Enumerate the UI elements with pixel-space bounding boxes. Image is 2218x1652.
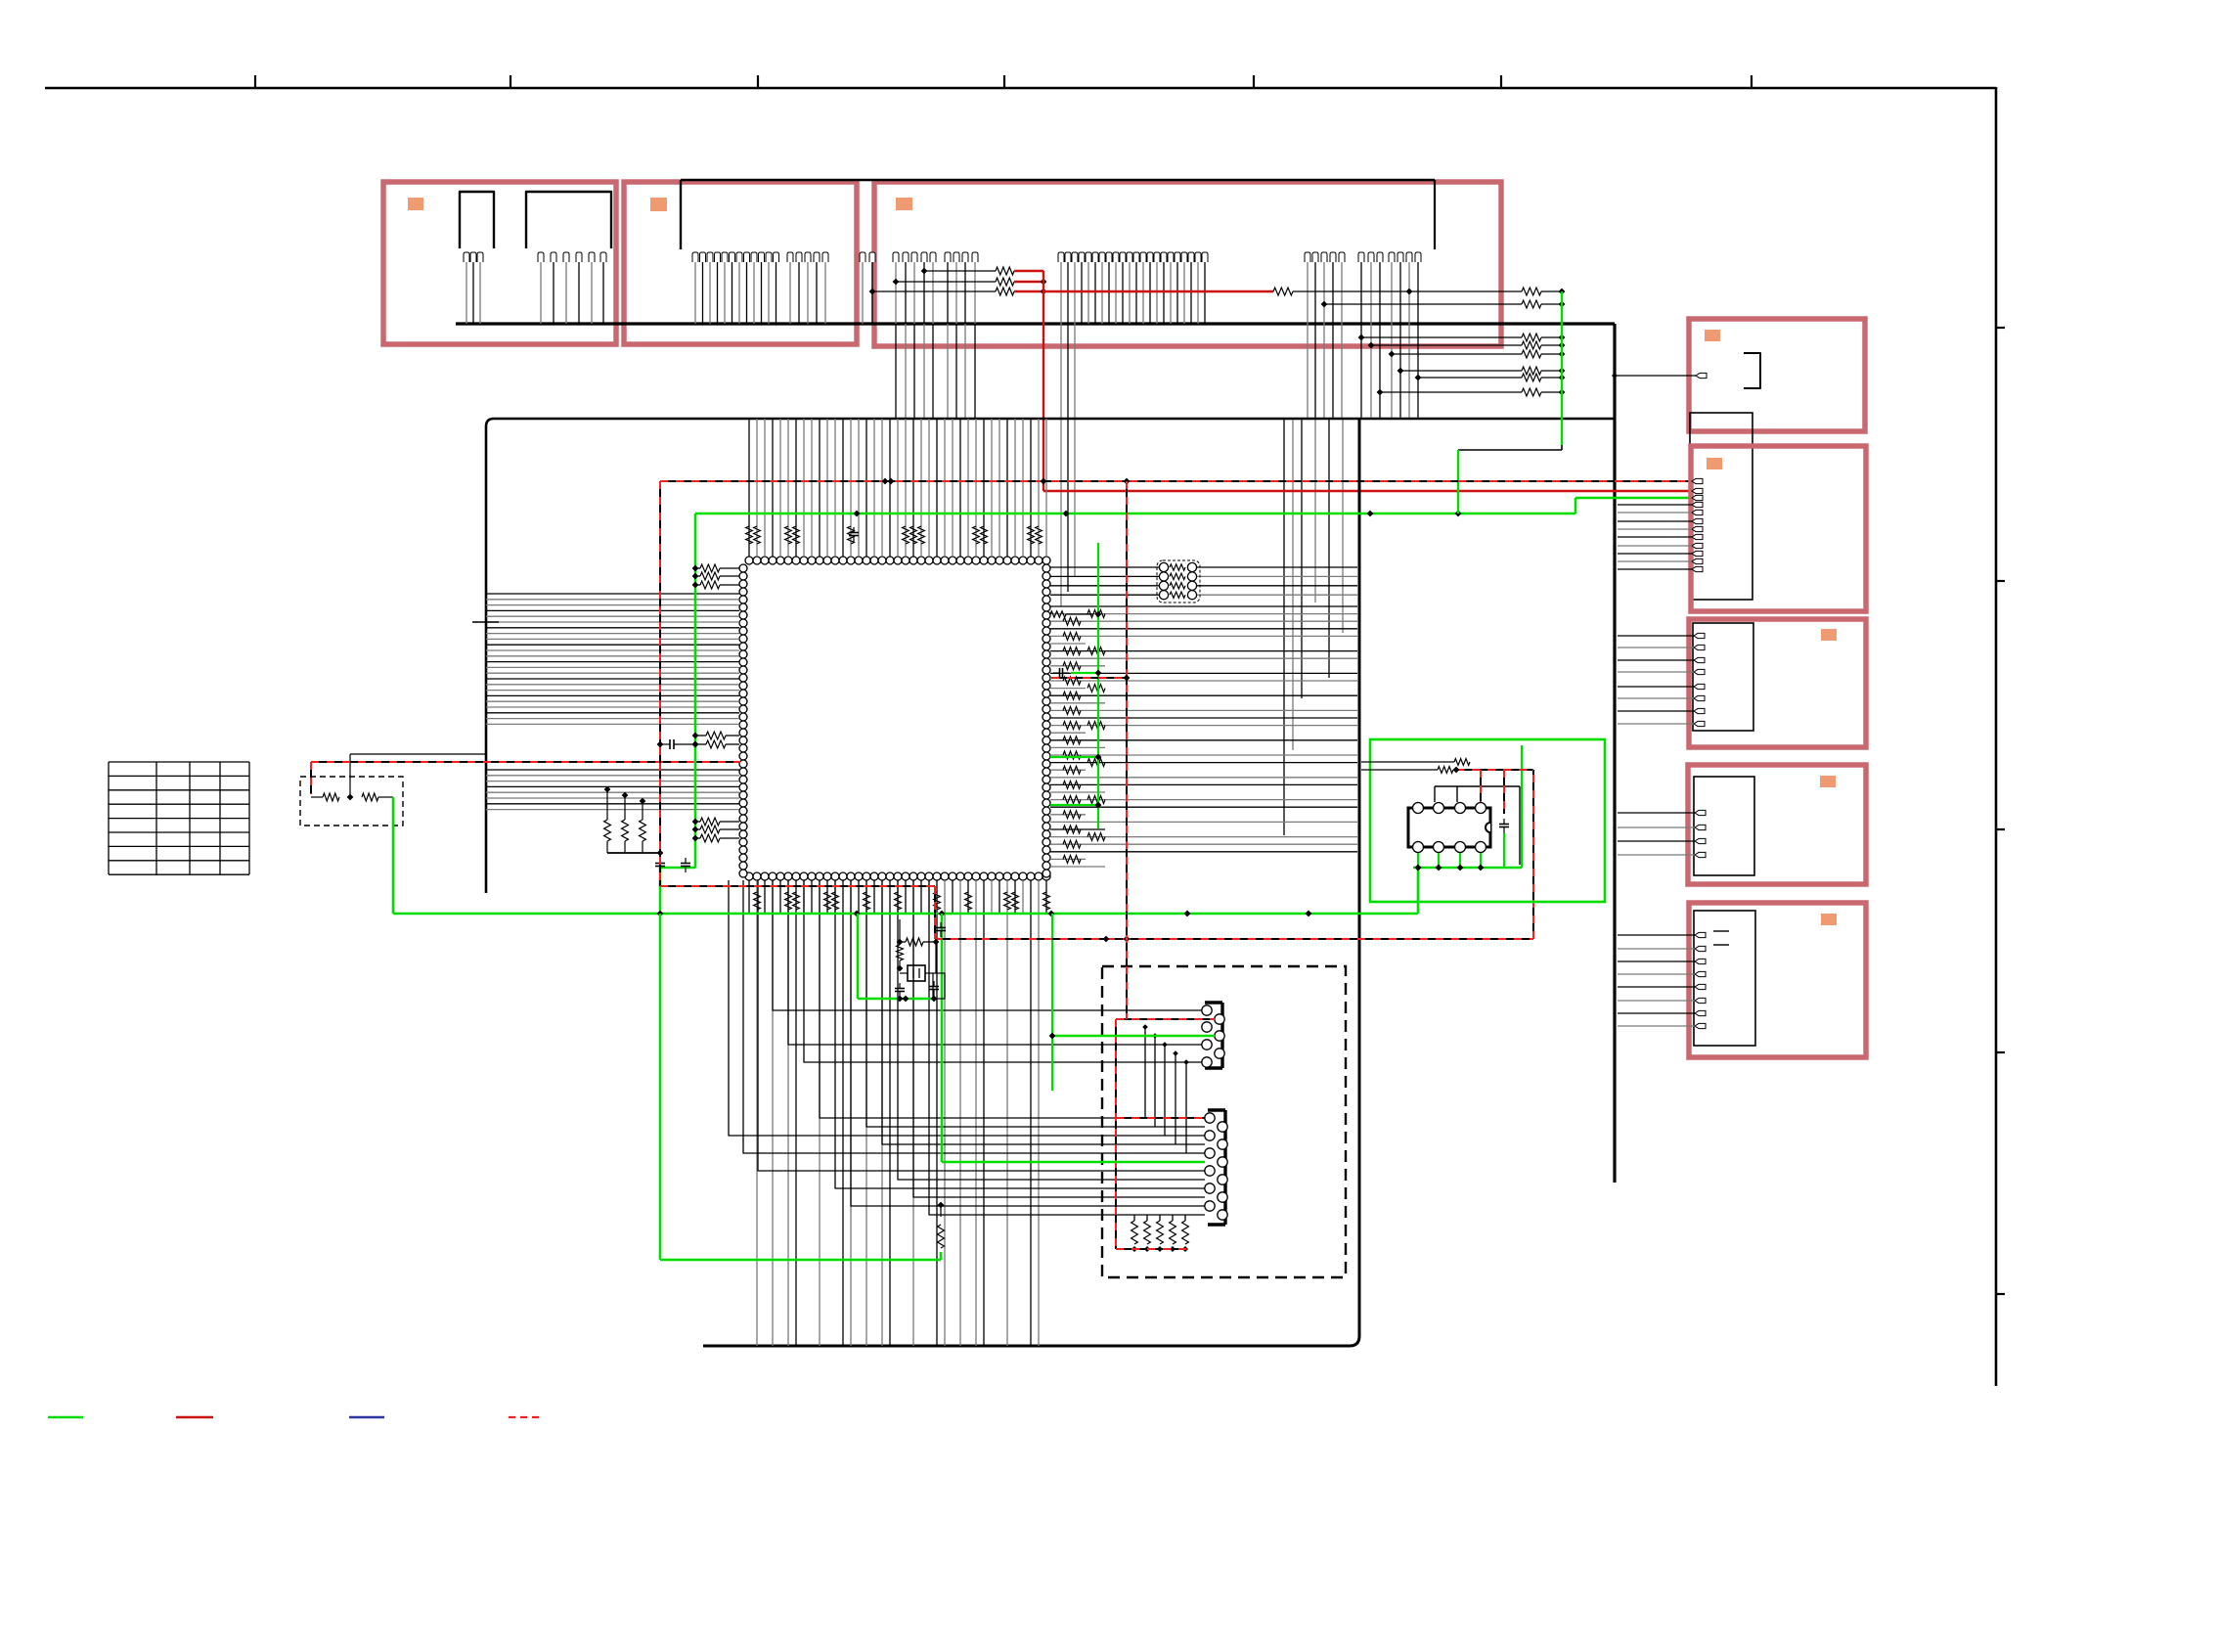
red wire VCC [1043, 271, 1692, 491]
block CN-E label [1821, 914, 1837, 925]
connector block CN1 label [408, 198, 423, 210]
block CN-D outline [1688, 765, 1866, 884]
ferrite bead array FB1 [1157, 560, 1200, 603]
wires CN10 internal [1142, 1024, 1189, 1153]
green wire over core [660, 498, 1694, 911]
connector J6 pins [1305, 252, 1421, 262]
connector CN11 body [1205, 1110, 1227, 1225]
green branch to CN11 [942, 914, 1205, 1162]
block CN-A outline [1689, 319, 1865, 431]
wire to core [350, 754, 486, 797]
capacitor C20 [1499, 819, 1509, 833]
connector J2 pins [538, 252, 606, 262]
highlight box green [1370, 739, 1605, 902]
pulldown resistors R30-R32 [604, 786, 664, 857]
series resistors right bank [1063, 610, 1105, 864]
legend blue wire [349, 1416, 384, 1418]
green bus U2 [1413, 745, 1522, 914]
green branch crystal [858, 914, 936, 999]
regulator U2 body [1408, 803, 1490, 853]
legend red wire [176, 1416, 213, 1418]
connector J3 pins [692, 252, 828, 262]
red-dash wire to CN10 [1116, 1019, 1215, 1249]
wires J5 to rows [1061, 324, 1075, 606]
green branch lower [660, 914, 944, 1260]
block CN-D label [1820, 776, 1836, 787]
coupling capacitor C5 [657, 739, 699, 749]
net wire top [681, 180, 1435, 249]
wires to CN-E [1618, 935, 1695, 1026]
decoupling capacitor C11 [849, 527, 859, 542]
lookup table [109, 762, 249, 874]
wires to CN-C [1618, 636, 1694, 724]
bracket contact [1744, 353, 1760, 388]
pin CN-A [1696, 373, 1707, 378]
connector J1 wires [466, 262, 480, 324]
connector block CN3 outline [874, 182, 1501, 346]
damping resistors bottom [754, 892, 1050, 910]
series resistors R20-R27 [1321, 300, 1566, 396]
wires to CN-B [1618, 505, 1692, 569]
block CN-A label [1705, 330, 1720, 341]
wires J6 to rows [1284, 419, 1343, 835]
option dashed box [300, 777, 403, 826]
ferrite rows [1050, 567, 1357, 595]
connector block CN1 outline [383, 182, 616, 344]
pulldown resistors RN2 [1131, 1215, 1189, 1252]
connector J4 wires [863, 262, 975, 324]
block CN-C label [1821, 629, 1837, 641]
display unit dashed box [1102, 966, 1346, 1277]
red supply stubs [1014, 271, 1046, 294]
green wire to J6 resistors [1458, 291, 1562, 513]
pins CN-E [1695, 931, 1729, 1029]
address bus wires top [749, 419, 1046, 557]
connector J5 wires [1061, 262, 1205, 324]
block CN-E outline [1689, 903, 1866, 1057]
interface box C [1693, 623, 1753, 731]
block CN-B label [1707, 458, 1722, 469]
crystal X1 [895, 919, 946, 1002]
pins CN-B [1692, 478, 1703, 571]
block CN-C outline [1689, 619, 1866, 747]
resistor R1 [311, 793, 339, 801]
red-dash loop around core [660, 481, 1533, 942]
wires J4 to core [896, 324, 975, 419]
wire to CN-A [1612, 373, 1696, 379]
legend green wire [48, 1416, 83, 1418]
bias resistors left middle [692, 732, 739, 748]
connector J2 wires [541, 262, 603, 324]
data bus wires right [1050, 606, 1357, 867]
connector CN10 body [1202, 1003, 1224, 1068]
capacitor C9 green stub [1053, 668, 1101, 678]
wires to CN-D [1618, 813, 1695, 855]
connector J1 body [460, 192, 494, 248]
damping resistors top [746, 526, 1042, 544]
green signal wire main [393, 797, 1418, 916]
red-dash wires U2 [1361, 759, 1532, 814]
net stub [472, 621, 499, 623]
red-dash select wire [311, 762, 740, 794]
ground rail bottom [703, 419, 1359, 1346]
sheet border top [45, 75, 1996, 88]
wires to display connector [729, 880, 1205, 1215]
control bus wires bottom [749, 880, 1046, 1346]
pins CN-C [1694, 633, 1705, 726]
interface box E [1694, 911, 1755, 1046]
connector block CN2 label [650, 198, 667, 211]
red-dash bus upper [660, 478, 1692, 485]
connector J1 pins [464, 252, 483, 262]
pullup resistors R10-R12 [869, 267, 1014, 295]
capacitors C7 C8 [655, 858, 690, 872]
connector J2 body [526, 192, 611, 248]
sheet border right [1996, 87, 2005, 1386]
block CN-B outline [1691, 446, 1866, 611]
wires U2 top [1435, 786, 1520, 865]
interface box D [1694, 777, 1754, 875]
ground bus wire [456, 324, 1615, 1183]
interface box AB [1690, 413, 1752, 600]
connector J4 pins [860, 252, 978, 262]
connector J3 wires [695, 262, 825, 324]
bias resistors left lower [692, 818, 739, 842]
connector block CN2 outline [624, 182, 857, 344]
green column right of U1 [1050, 543, 1101, 828]
resistor R2 [347, 793, 393, 801]
green branch to CN10 [1049, 914, 1215, 1091]
connector J5 pins [1058, 252, 1208, 262]
bias resistors left top [692, 564, 739, 589]
connector block CN3 label [896, 198, 912, 210]
data bus wires left [486, 594, 739, 810]
red-dash stub right of U1 [1051, 481, 1130, 1019]
connector J6 wires [1308, 262, 1418, 419]
legend red dashed wire [509, 1416, 544, 1418]
core boundary box [486, 419, 1615, 893]
pins CN-D [1695, 810, 1706, 857]
microprocessor U1 [739, 557, 1050, 880]
